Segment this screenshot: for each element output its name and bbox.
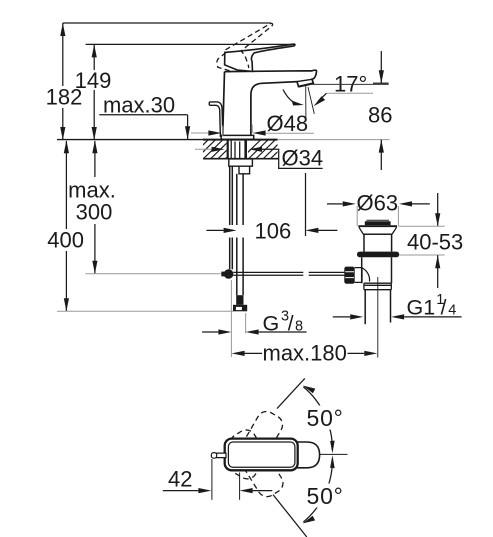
- svg-text:300: 300: [76, 200, 113, 225]
- G3/8 hose nut: [233, 305, 247, 312]
- dimension 42: [163, 459, 272, 500]
- mounting nut below deck: [229, 159, 253, 166]
- dimension G1 1/4 arrows: [333, 314, 462, 319]
- G1 1/4 thread label: [407, 292, 457, 319]
- dimension max.180: [232, 341, 378, 366]
- svg-text:40-53: 40-53: [407, 230, 463, 255]
- dashed handle rotated +50 (up): [228, 408, 286, 482]
- lever handle (dashed, raised position): [217, 23, 273, 71]
- black seal band: [357, 252, 399, 258]
- dimension 400: [47, 140, 233, 311]
- svg-text:50°: 50°: [307, 483, 344, 509]
- shank stub: [239, 166, 250, 174]
- dimension Ø63 (drain flange): [327, 191, 430, 227]
- 50 degree reference diagonal top: [277, 378, 305, 408]
- spout end cap (top view): [294, 442, 320, 468]
- base plate: [221, 135, 254, 139]
- dimension Ø34 (deck hole) with leader: [195, 146, 323, 237]
- deck / counter top line: [57, 139, 203, 141]
- svg-text:149: 149: [75, 68, 112, 93]
- svg-text:4: 4: [448, 302, 456, 318]
- dimension G3/8 arrows: [202, 280, 307, 357]
- svg-text:50°: 50°: [307, 405, 344, 431]
- lever port: [355, 268, 362, 283]
- pop-up rod ball joint: [221, 272, 224, 277]
- dimension 106: [207, 219, 338, 244]
- plug cap: [365, 221, 391, 225]
- centerline: [377, 277, 379, 358]
- dimension 182: [46, 23, 271, 140]
- hoses and pop-up rod below deck: [230, 166, 243, 295]
- svg-text:max.180: max.180: [263, 341, 347, 366]
- swivel arc bottom with arrowheads: [303, 459, 332, 522]
- G3/8 thread label: [263, 309, 304, 336]
- pop-up rod pin (top view): [216, 453, 226, 458]
- svg-text:86: 86: [368, 103, 392, 128]
- swivel arc top with arrowheads: [303, 387, 332, 450]
- dashed handle rotated -50 (down): [227, 426, 287, 500]
- 50 degree reference diagonal bottom: [273, 495, 307, 537]
- label 17° with leader: [314, 72, 373, 107]
- svg-text:42: 42: [168, 467, 192, 492]
- faucet body and spout outline: [223, 70, 317, 135]
- centerline: [320, 453, 348, 455]
- horizontal pop-up rod: [233, 272, 344, 275]
- shank and hoses through deck hole: [228, 140, 246, 159]
- dimension 149: [75, 44, 294, 140]
- pop-up pull rod hook behind body: [209, 102, 223, 137]
- svg-text:max.30: max.30: [103, 93, 175, 118]
- handle lever (top view): [225, 439, 298, 471]
- spout outlet extension line: [311, 83, 389, 85]
- svg-text:Ø48: Ø48: [267, 111, 309, 136]
- label 50° top: [303, 406, 348, 430]
- lower body: [362, 257, 392, 283]
- lever handle (solid, down position): [225, 44, 295, 71]
- svg-text:/: /: [441, 296, 447, 319]
- deck hatching left block: [189, 140, 245, 159]
- deck hatching right block: [242, 140, 298, 159]
- svg-text:400: 400: [47, 228, 84, 253]
- dimension 86: [368, 51, 392, 170]
- pop-up drain waste assembly: [344, 220, 399, 357]
- deck bottom line: [203, 158, 279, 160]
- dimension 40-53: [398, 193, 463, 288]
- aerator wedge: [297, 79, 312, 81]
- 17° spout angle reference lines: [305, 85, 307, 119]
- svg-text:Ø63: Ø63: [357, 191, 399, 216]
- 17° arc with arrowhead: [283, 90, 299, 105]
- dimension max.30: [99, 93, 190, 140]
- ball knob: [344, 267, 354, 284]
- BOTTOM VIEW: [163, 378, 348, 537]
- svg-text:G1: G1: [407, 295, 436, 319]
- flange: [358, 225, 397, 227]
- dimension Ø48: [191, 111, 314, 137]
- dimension max.300: [68, 140, 221, 273]
- tailpipe: [365, 290, 390, 325]
- upper body: [364, 234, 392, 252]
- label 50° bottom: [303, 484, 348, 508]
- svg-text:Ø34: Ø34: [282, 146, 324, 171]
- SIDE VIEW: [46, 23, 464, 366]
- coupling nut: [364, 283, 391, 290]
- svg-text:106: 106: [255, 219, 292, 244]
- G3/8 hose connector collar: [236, 295, 243, 305]
